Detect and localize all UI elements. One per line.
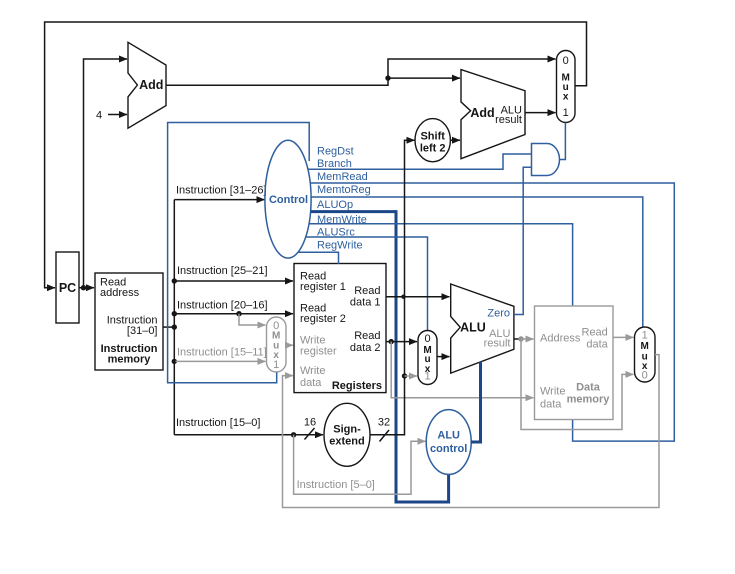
svg-text:Write: Write	[300, 365, 325, 377]
svg-text:memory: memory	[108, 354, 152, 366]
wire: read data 2 to ALUSrc mux input 0	[386, 341, 417, 343]
svg-text:register 2: register 2	[300, 313, 346, 325]
node: PC+4 junction	[385, 75, 390, 80]
node: ALU result junction (gray)	[518, 336, 523, 341]
svg-text:ALUOp: ALUOp	[317, 199, 353, 211]
wire: RegDst control to regdst mux select	[168, 123, 310, 383]
wire: instruction [25-21] to read register 1	[174, 280, 293, 282]
wire: sign extend to ALUSrc mux input 1 (gray)	[405, 375, 418, 377]
registers box	[294, 264, 386, 393]
svg-text:0: 0	[424, 333, 430, 345]
svg-text:MemtoReg: MemtoReg	[317, 184, 371, 196]
svg-text:1: 1	[424, 370, 430, 382]
mux PCSrc (top right)	[557, 51, 576, 123]
control ellipse	[265, 140, 311, 258]
data memory box (gray)	[535, 306, 614, 420]
node: instruction [20-16] branch to regdst mux	[236, 311, 241, 316]
mux RegDst (gray, inactive)	[267, 317, 287, 372]
node: crossing dot on read data 1	[401, 295, 405, 299]
ALU control ellipse (blue)	[426, 410, 471, 475]
wire: ALUOp control to ALU control (thick)	[311, 212, 449, 502]
wire: MemWrite control to data memory write enable	[309, 224, 573, 307]
wire: instruction memory output to instruction bus	[163, 326, 174, 328]
adder Add (branch target), ALU result	[461, 70, 525, 159]
svg-text:[31–0]: [31–0]	[127, 325, 158, 337]
wire: PC output up to Add (PC+4) input	[84, 59, 128, 288]
svg-text:1: 1	[563, 107, 569, 119]
node: read data 2 junction	[389, 339, 394, 344]
adder Add (PC+4)	[128, 42, 166, 128]
wire: regdst mux output to write register (gray)	[286, 344, 293, 346]
mux MemtoReg (right)	[635, 327, 656, 382]
wire: Zero output to AND gate (blue)	[514, 167, 532, 314]
svg-text:32: 32	[378, 417, 390, 429]
svg-text:data: data	[586, 339, 608, 351]
svg-text:Write: Write	[540, 386, 565, 398]
svg-text:register 1: register 1	[300, 281, 346, 293]
wire: instruction [15-11] to regdst mux input 1 (gray)	[176, 360, 266, 362]
wire: instruction [20-16] down to regdst mux input 0 (gray)	[239, 314, 266, 325]
svg-text:Branch: Branch	[317, 158, 352, 170]
wire: data memory read data to right mux input 1 (gray)	[613, 336, 634, 338]
node: sign extend output junction	[402, 373, 407, 378]
AND gate (blue) for branch	[532, 144, 560, 176]
wire: ALU result to data memory address (gray)	[521, 338, 534, 340]
svg-text:Instruction [15–0]: Instruction [15–0]	[176, 417, 260, 429]
svg-text:Instruction [31–26]: Instruction [31–26]	[176, 184, 267, 196]
svg-text:result: result	[495, 114, 522, 126]
wire: instruction [5-0] to ALU control (gray)	[294, 435, 426, 494]
svg-text:data: data	[540, 398, 562, 410]
svg-text:Registers: Registers	[332, 380, 382, 392]
svg-text:ALU: ALU	[437, 430, 460, 442]
svg-text:Read: Read	[354, 330, 380, 342]
svg-text:memory: memory	[567, 393, 611, 405]
wire: ALU control output to ALU (thick blue)	[471, 362, 481, 443]
ellipse Shift left 2	[415, 119, 450, 162]
svg-text:data 2: data 2	[350, 342, 381, 354]
wire: PC+4 to branch adder top input	[388, 77, 460, 79]
node: instruction [15-0] junction	[291, 432, 296, 437]
svg-text:MemRead: MemRead	[317, 171, 368, 183]
svg-text:1: 1	[273, 359, 279, 371]
svg-text:1: 1	[642, 329, 648, 341]
svg-text:register: register	[300, 345, 337, 357]
wire: AND gate output to PCSrc mux select	[560, 123, 566, 160]
bus width slash 32	[380, 430, 390, 442]
svg-text:PC: PC	[59, 281, 76, 295]
svg-text:Read: Read	[582, 326, 608, 338]
wire: read data 1 to ALU input	[386, 296, 450, 298]
bus width slash 16	[305, 428, 315, 440]
wire: instruction [15-0] to sign extend	[174, 434, 323, 436]
svg-text:0: 0	[642, 369, 648, 381]
wire: instruction bus vertical	[173, 200, 175, 435]
wire: PC output to instruction memory read address	[79, 287, 94, 289]
svg-text:Instruction [20–16]: Instruction [20–16]	[177, 300, 268, 312]
svg-text:RegWrite: RegWrite	[317, 239, 363, 251]
ellipse sign extend	[324, 403, 370, 466]
wire: constant 4 into Add	[108, 114, 127, 116]
svg-text:0: 0	[563, 55, 569, 67]
wire: PC-source mux output feedback loop to PC input	[45, 22, 587, 288]
svg-text:4: 4	[96, 109, 102, 121]
svg-text:Instruction [5–0]: Instruction [5–0]	[297, 479, 375, 491]
wire: instruction [20-16] to read register 2	[174, 313, 293, 315]
svg-text:ALU: ALU	[460, 321, 486, 335]
svg-text:address: address	[100, 287, 140, 299]
mux ALUSrc	[418, 331, 437, 385]
svg-text:Read: Read	[354, 285, 380, 297]
svg-text:Data: Data	[576, 382, 601, 394]
svg-text:left 2: left 2	[420, 142, 446, 154]
svg-text:Add: Add	[139, 78, 163, 92]
svg-text:Instruction [25–21]: Instruction [25–21]	[177, 265, 268, 277]
svg-text:data 1: data 1	[350, 297, 381, 309]
svg-text:x: x	[563, 91, 569, 102]
wire: PC+4 result to junction and up	[166, 59, 556, 85]
wire: MemRead control to data memory read enable	[310, 183, 674, 441]
svg-text:Shift: Shift	[420, 130, 445, 142]
svg-text:RegDst: RegDst	[317, 145, 354, 157]
ALU main	[451, 284, 514, 373]
wire: Branch control to AND gate	[308, 154, 531, 169]
svg-text:Zero: Zero	[487, 308, 510, 320]
svg-text:result: result	[484, 338, 511, 350]
svg-text:Control: Control	[269, 194, 308, 206]
wire: sign extend output to ALUSrc mux and shift left 2	[370, 140, 415, 435]
wire: ALU result around data memory to right mux input 0 (gray)	[521, 339, 634, 430]
svg-text:Add: Add	[470, 106, 494, 120]
wire: MemtoReg control to right mux select	[311, 197, 643, 328]
wire: ALUSrc mux output to ALU	[437, 356, 450, 358]
wire: instruction [31-26] to control	[174, 199, 264, 201]
node: instruction bus taps	[172, 278, 177, 283]
PC register box	[56, 252, 79, 323]
wire: RegWrite control to registers	[299, 252, 339, 264]
svg-text:Address: Address	[540, 332, 581, 344]
wire: read data 2 down to data memory write data (gray)	[391, 342, 533, 398]
svg-text:extend: extend	[329, 435, 364, 447]
svg-text:Sign-: Sign-	[333, 423, 361, 435]
wire: ALU result output	[514, 338, 519, 340]
instruction memory box	[95, 273, 163, 370]
wire: branch adder output to mux input 1	[525, 112, 556, 114]
wire: shift left 2 output to branch adder	[450, 139, 460, 141]
svg-text:Instruction [15–11]: Instruction [15–11]	[177, 347, 267, 359]
node: PC output junction	[81, 285, 86, 290]
wire: ALUSrc control to ALU mux select	[305, 237, 427, 331]
svg-text:16: 16	[304, 417, 316, 429]
svg-text:control: control	[430, 443, 467, 455]
wire: write-back from right mux to registers write data (gray)	[283, 355, 660, 508]
svg-text:data: data	[300, 377, 322, 389]
